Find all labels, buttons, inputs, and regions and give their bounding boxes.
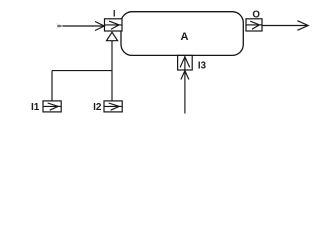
svg-text:A: A xyxy=(181,31,189,43)
svg-text:I3: I3 xyxy=(198,60,207,71)
svg-text:I: I xyxy=(113,8,116,18)
svg-text:O: O xyxy=(252,10,260,21)
svg-text:I1: I1 xyxy=(31,102,40,113)
svg-text:I2: I2 xyxy=(93,102,102,113)
